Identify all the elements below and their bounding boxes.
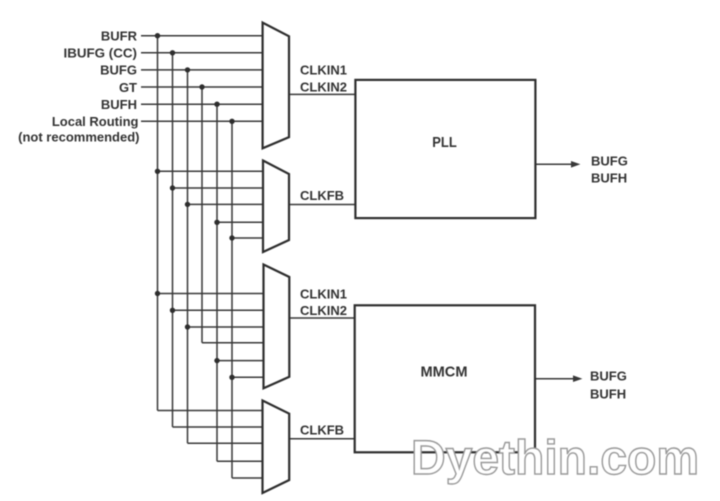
svg-text:BUFG: BUFG: [100, 63, 137, 78]
svg-text:CLKIN1: CLKIN1: [300, 286, 347, 301]
svg-text:BUFR: BUFR: [101, 29, 138, 44]
svg-text:BUFH: BUFH: [101, 97, 137, 112]
svg-text:GT: GT: [119, 80, 137, 95]
svg-text:IBUFG (CC): IBUFG (CC): [64, 46, 138, 61]
svg-text:Local Routing: Local Routing: [52, 114, 139, 129]
svg-text:BUFG: BUFG: [590, 369, 627, 384]
svg-text:CLKFB: CLKFB: [300, 188, 344, 203]
svg-text:BUFH: BUFH: [590, 386, 626, 401]
svg-text:BUFH: BUFH: [591, 170, 627, 185]
svg-text:PLL: PLL: [432, 134, 457, 151]
svg-text:CLKIN2: CLKIN2: [300, 303, 347, 318]
svg-text:CLKIN2: CLKIN2: [300, 79, 347, 94]
svg-text:MMCM: MMCM: [421, 364, 468, 381]
svg-text:CLKFB: CLKFB: [300, 422, 344, 437]
svg-text:CLKIN1: CLKIN1: [300, 63, 347, 78]
svg-text:(not recommended): (not recommended): [18, 130, 139, 145]
svg-text:Dyethin.com: Dyethin.com: [411, 432, 699, 485]
svg-text:BUFG: BUFG: [591, 153, 628, 168]
